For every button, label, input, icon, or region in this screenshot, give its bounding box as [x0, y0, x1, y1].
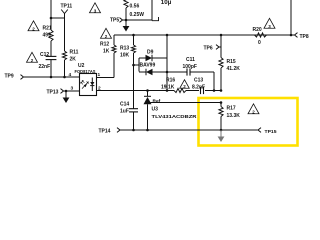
wire R15 branch — [220, 35, 222, 91]
junctions x167 — [166, 71, 169, 92]
ground arrow (TP13) — [63, 91, 70, 103]
wire R17 branch — [220, 103, 222, 131]
note triangle 2 (C12) — [27, 52, 38, 62]
resistor R11 2K — [62, 50, 78, 63]
svg-text:10K: 10K — [120, 53, 130, 59]
wire D9 stub — [132, 58, 139, 72]
svg-text:TP13: TP13 — [47, 90, 59, 96]
svg-text:TP5: TP5 — [110, 18, 119, 24]
svg-text:U3: U3 — [152, 107, 159, 113]
test point TP9 — [5, 74, 24, 80]
svg-text:R13: R13 — [120, 46, 129, 52]
note triangle 2 (R12) — [100, 28, 112, 47]
node junction R21 top — [50, 17, 53, 20]
diode D9 bottom half BAV99 — [139, 63, 167, 76]
svg-text:13.3K: 13.3K — [227, 113, 241, 119]
junction Ref to R17 — [220, 101, 223, 104]
wire node line — [166, 35, 168, 91]
svg-text:Ref: Ref — [153, 99, 161, 105]
svg-text:TP8: TP8 — [300, 34, 309, 40]
wire C11 branch — [167, 72, 214, 91]
svg-text:19.1K: 19.1K — [161, 85, 175, 91]
svg-text:41.2K: 41.2K — [227, 66, 241, 72]
note triangle 2 (R16) — [180, 80, 190, 89]
wire TP9 rail — [24, 76, 80, 78]
svg-text:R12: R12 — [100, 42, 109, 48]
svg-text:C11: C11 — [186, 57, 195, 63]
junctions on main rail — [132, 34, 292, 37]
op-amp U2 optocoupler FOD817AS — [75, 63, 97, 96]
ground arrow (TP5) — [123, 20, 130, 32]
svg-text:C14: C14 — [120, 102, 129, 108]
junction TP13 ground — [65, 90, 68, 93]
svg-text:FOD817AS: FOD817AS — [75, 69, 97, 75]
pin 4 — [69, 72, 72, 78]
svg-text:0.25W: 0.25W — [130, 12, 145, 18]
svg-text:R11: R11 — [70, 50, 79, 56]
svg-text:4: 4 — [69, 72, 72, 78]
svg-text:R20: R20 — [253, 27, 262, 33]
resistor R21 499 — [43, 26, 54, 42]
note triangle 3 — [90, 3, 101, 13]
resistor R20 0 — [253, 27, 267, 46]
resistor R15 41.2K — [219, 58, 240, 73]
wire R13 branch — [133, 35, 135, 104]
svg-text:R21: R21 — [43, 26, 52, 32]
wire feedback rail — [97, 90, 222, 92]
capacitor C11 100pF — [183, 57, 197, 76]
svg-text:TLV431ACDBZR: TLV431ACDBZR — [152, 114, 198, 120]
svg-text:U2: U2 — [78, 63, 85, 69]
ground arrow (gray, R17) — [218, 130, 225, 142]
pin 2 — [98, 86, 101, 92]
wire — [64, 18, 66, 77]
resistor R12 1K — [103, 45, 116, 55]
resistor R16 19.1K — [161, 78, 186, 93]
svg-text:22nF: 22nF — [39, 64, 51, 70]
svg-text:TP6: TP6 — [204, 46, 213, 52]
svg-text:499: 499 — [43, 33, 52, 39]
svg-text:TP11: TP11 — [61, 4, 73, 10]
test point TP8 — [291, 33, 309, 40]
wire TP11 branch — [51, 17, 65, 19]
svg-text:R15: R15 — [227, 59, 236, 65]
resistor 0.56 0.25W — [124, 0, 144, 20]
capacitor C13 8.2nF — [192, 78, 205, 95]
svg-text:0: 0 — [258, 40, 261, 46]
svg-text:2K: 2K — [70, 57, 77, 63]
svg-text:D9: D9 — [147, 50, 154, 56]
test point TP15 — [258, 128, 277, 135]
test point TP5 — [110, 18, 126, 24]
node TP5 junction — [125, 19, 128, 22]
svg-text:0.56: 0.56 — [130, 4, 140, 10]
wire TP13 to pin3 — [64, 90, 80, 92]
resistor R13 10K — [120, 45, 136, 59]
shunt reference U3 TLV431ACDBZR — [144, 91, 198, 131]
svg-text:100pF: 100pF — [183, 64, 197, 70]
pin 3 — [71, 86, 74, 92]
svg-text:TP9: TP9 — [5, 74, 14, 80]
svg-text:R16: R16 — [166, 78, 175, 84]
svg-text:C13: C13 — [194, 78, 203, 84]
svg-text:1K: 1K — [103, 49, 110, 55]
junctions on TP14 rail — [132, 129, 222, 132]
svg-text:TP14: TP14 — [99, 129, 111, 135]
wire — [50, 0, 52, 77]
note triangle 2 (R17) — [248, 104, 259, 114]
junctions on TP9 rail — [50, 76, 66, 79]
highlight box — [199, 98, 298, 146]
svg-text:TP15: TP15 — [265, 129, 277, 135]
note triangle 3 (R20) — [264, 18, 275, 28]
test point TP14 — [99, 128, 121, 135]
wire TP8 vertical — [290, 0, 292, 35]
diode D9 top half — [139, 50, 167, 62]
svg-text:1: 1 — [98, 72, 101, 78]
svg-text:8.2nF: 8.2nF — [192, 85, 205, 91]
wire Ref — [151, 102, 222, 104]
svg-text:C12: C12 — [40, 52, 49, 58]
wire to upper circuit 10µ (clipped) — [126, 0, 172, 21]
resistor R17 13.3K — [219, 106, 240, 120]
pin 1 — [98, 72, 101, 78]
junctions on feedback rail — [146, 89, 222, 92]
test point TP11 — [61, 4, 73, 19]
svg-text:1uF: 1uF — [120, 109, 129, 115]
wire main rail — [114, 34, 291, 36]
capacitor C14 1uF — [120, 102, 138, 131]
note triangle 2 (R21) — [28, 21, 39, 31]
test point TP13 — [47, 89, 64, 96]
svg-text:10µ: 10µ — [161, 0, 172, 6]
svg-text:R17: R17 — [227, 106, 236, 112]
test point TP6 — [204, 45, 222, 52]
svg-text:BAV99: BAV99 — [140, 63, 156, 69]
wire TP14 rail — [120, 129, 258, 131]
wire R12 branch — [97, 35, 115, 78]
capacitor C12 22nF — [39, 52, 57, 70]
